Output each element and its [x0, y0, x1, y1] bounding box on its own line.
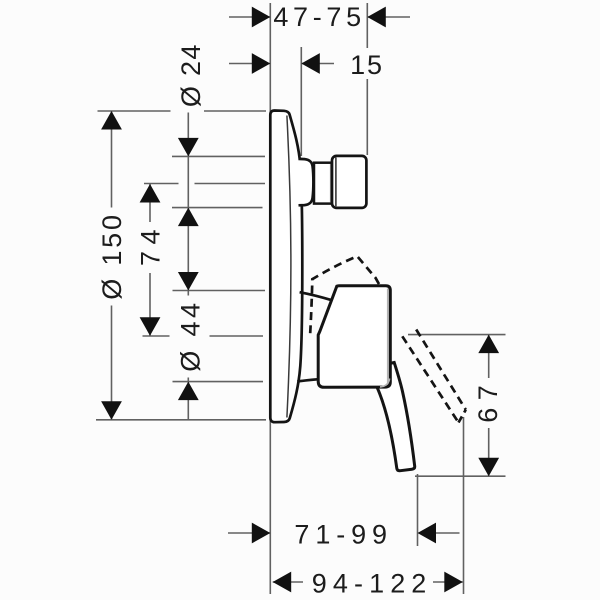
svg-text:47-75: 47-75 [273, 2, 366, 32]
svg-text:Ø 44: Ø 44 [176, 300, 206, 372]
svg-text:Ø 150: Ø 150 [97, 212, 127, 300]
svg-text:94-122: 94-122 [312, 568, 433, 598]
svg-text:74: 74 [135, 223, 165, 266]
svg-text:15: 15 [350, 50, 384, 80]
svg-text:67: 67 [473, 378, 503, 423]
svg-text:Ø 24: Ø 24 [176, 43, 206, 107]
svg-text:71-99: 71-99 [294, 519, 393, 549]
